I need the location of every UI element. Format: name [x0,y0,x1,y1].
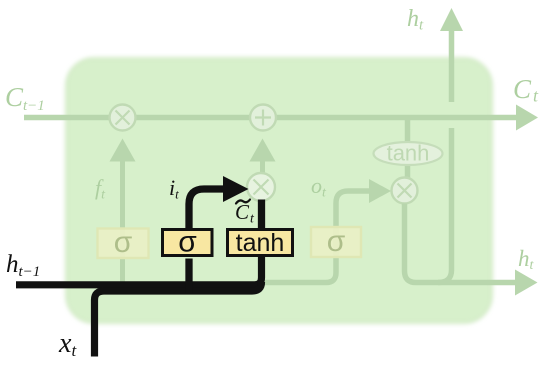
wire: branch from C line down to tanh ellipse [405,120,411,179]
wire: cell-state line C (horizontal, faded) [24,115,516,121]
svg-text:tanh: tanh [387,141,430,166]
tanh ellipse (faded output activation) [374,141,443,166]
wire: h_t-1 input line (black, highlighted) turning up into tanh box [16,256,262,285]
cell body (LSTM cell, faded green rounded rectangle) [66,58,492,323]
output multiply (circle x, faded) [392,178,418,204]
arrowhead i_t into input multiply (black) [223,176,249,202]
arrowhead of cell-state line into C_t [516,105,538,131]
svg-text:σ: σ [178,226,197,259]
wire: output of multiply down and right to h_t (bottom output) [405,204,517,283]
svg-text:ht−1: ht−1 [6,251,40,280]
svg-text:Ct: Ct [513,74,539,106]
wire: i branch up from h line to sigma box (black) [185,259,192,294]
wire: arrow from input multiply up into add node [250,139,276,162]
wire: x_t input line (black) merging into h line [95,282,262,357]
sigma box i gate (highlighted yellow) [163,230,213,256]
wire: o gate path from h line up through sigma to output multiply [264,191,369,283]
tanh box candidate gate (highlighted yellow) [228,230,293,256]
svg-text:σ: σ [114,226,133,259]
input-gate multiply (circle x, faded, target of i_t arrow) [247,173,275,201]
add node (circle + on C line) [250,105,276,131]
svg-text:σ: σ [327,225,346,258]
svg-text:ht: ht [518,246,535,273]
svg-text:ht: ht [407,6,424,34]
svg-text:xt: xt [58,328,77,360]
svg-text:tanh: tanh [236,229,285,257]
sigma box f gate (faded, translucent) [98,229,149,259]
wire: forget-gate arrow up into multiply [110,139,136,162]
wire: h_t branch up through cell (with gap at C line) to top arrow [438,128,452,283]
tilde over C [236,200,250,204]
wire: candidate line from tanh box up into multiply (black) [258,200,265,231]
forget-gate multiply (circle x on C line) [110,105,136,131]
sigma box o gate (faded, translucent) [311,227,361,257]
wire: i gate elbow from sigma box top to arrow (black) [189,189,224,230]
svg-text:Ct−1: Ct−1 [5,82,45,114]
